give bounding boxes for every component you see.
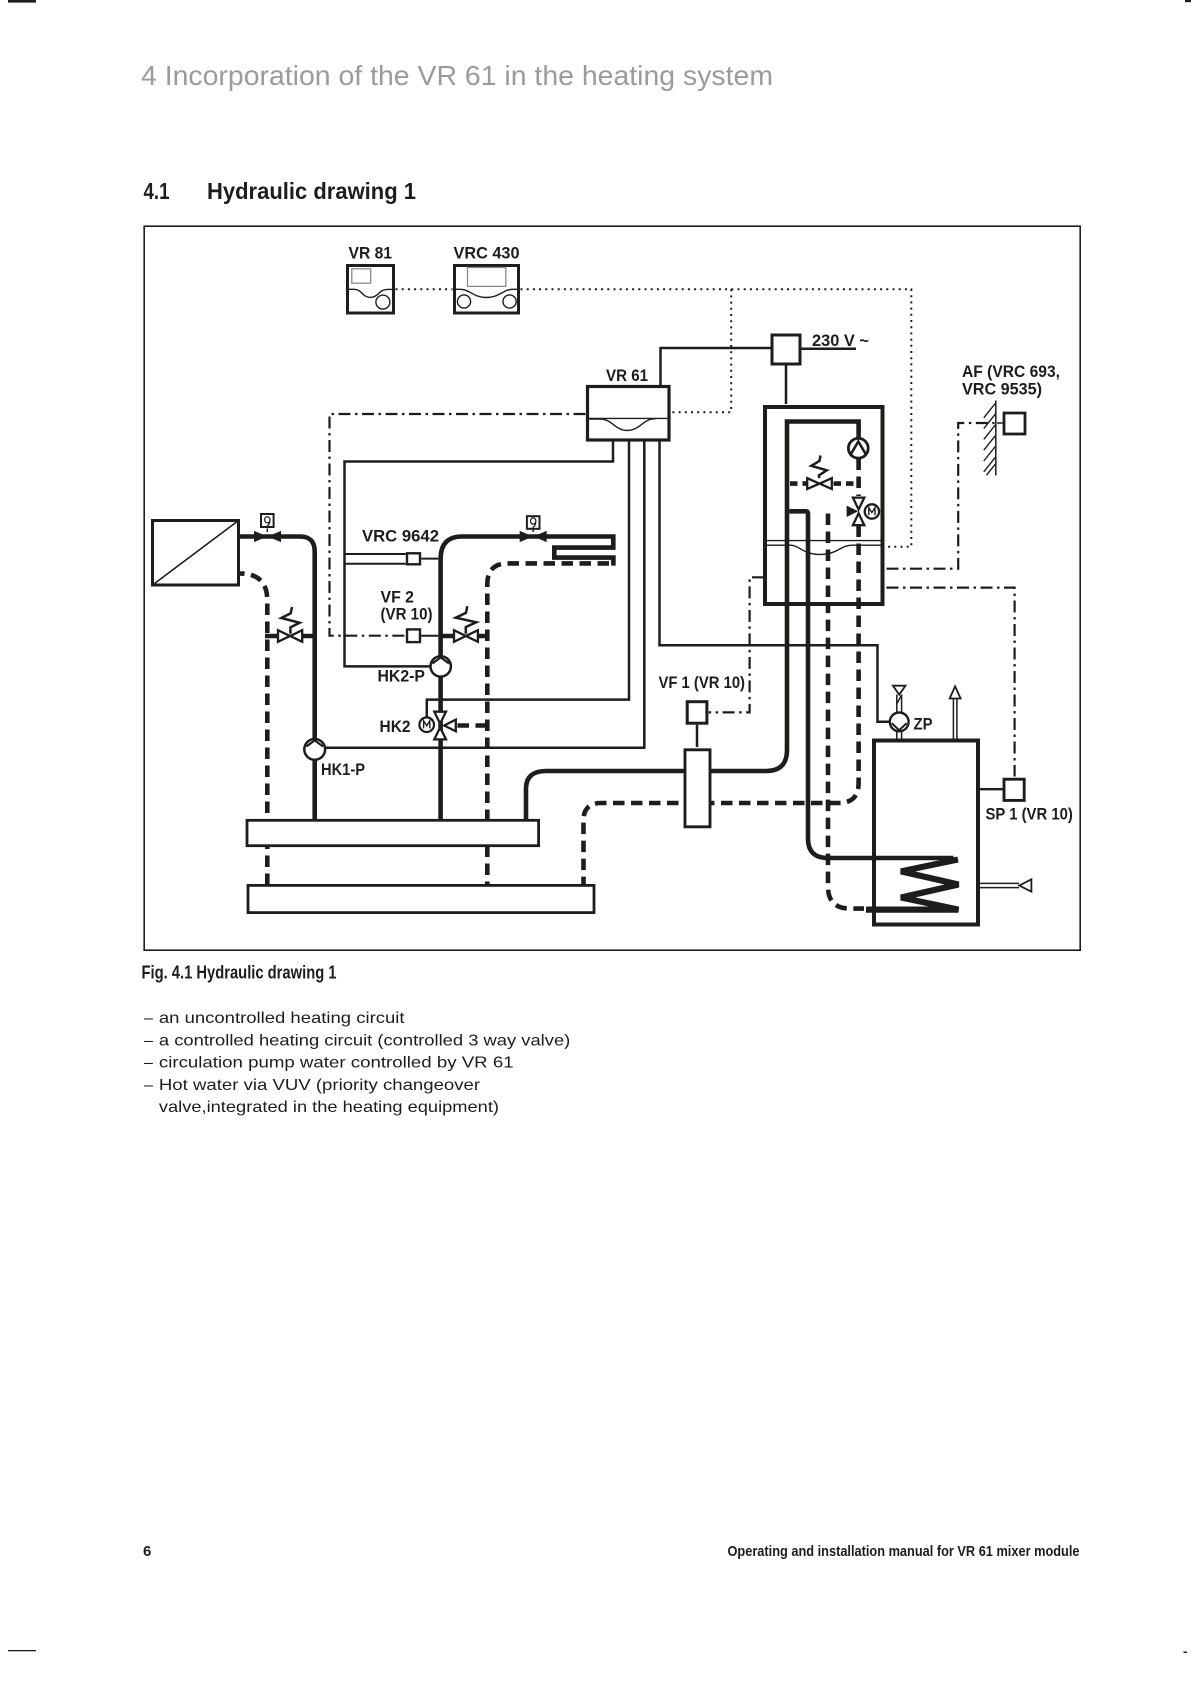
svg-text:VR 61: VR 61 bbox=[606, 367, 648, 385]
dash-dot wire VR61 to VF2 bbox=[330, 414, 586, 636]
dashed heating return pipe to lower manifold bbox=[584, 526, 859, 886]
DHW outlet arrow bbox=[950, 686, 961, 740]
crop mark top-right bbox=[1185, 0, 1191, 2]
sensor VF1 bbox=[659, 674, 746, 747]
AF outdoor sensor (VRC 693 / VRC 9535) bbox=[962, 363, 1060, 399]
svg-text:(VR 10): (VR 10) bbox=[381, 606, 433, 624]
svg-text:an uncontrolled heating circui: an uncontrolled heating circuit bbox=[159, 1010, 405, 1027]
dashed DHW return pipe tank coil to 3-way valve bbox=[828, 511, 864, 908]
dash-dot wire SP1 to boiler bbox=[887, 588, 1015, 777]
wire 230V box to boiler bbox=[785, 366, 788, 405]
eBUS dotted wire VR81 to VRC430 bbox=[396, 288, 453, 290]
boiler DHW flow pipe to tank coil bbox=[789, 511, 953, 858]
wire VR61 to HK1-P pump bbox=[325, 442, 644, 748]
remote control VR 81 bbox=[348, 245, 394, 314]
svg-text:–: – bbox=[144, 1055, 153, 1072]
svg-text:AF (VRC 693,: AF (VRC 693, bbox=[962, 363, 1060, 381]
wire VR61 to HK2 mixing valve bbox=[427, 442, 629, 718]
svg-text:SP 1 (VR 10): SP 1 (VR 10) bbox=[986, 806, 1073, 824]
crop mark bottom-left bbox=[8, 1650, 36, 1651]
boiler overflow valve bbox=[790, 456, 858, 490]
HK2 flow pipe with radiator coil bbox=[441, 537, 614, 822]
svg-text:VF 1 (VR 10): VF 1 (VR 10) bbox=[659, 674, 746, 692]
eBUS dotted wire branch to VR61 bbox=[671, 289, 731, 412]
diagram frame bbox=[144, 226, 1080, 950]
svg-text:Operating and installation man: Operating and installation manual for VR… bbox=[728, 1543, 1080, 1560]
svg-text:VF 2: VF 2 bbox=[381, 589, 415, 607]
boiler water line bbox=[765, 541, 885, 555]
mixing valve HK2 with motor bbox=[380, 712, 456, 740]
tank (DHW cylinder) bbox=[874, 741, 978, 925]
mixer module VR 61 bbox=[588, 367, 670, 440]
svg-text:circulation pump water control: circulation pump water controlled by VR … bbox=[159, 1055, 514, 1072]
svg-text:4 Incorporation of the VR 61 i: 4 Incorporation of the VR 61 in the heat… bbox=[141, 60, 773, 91]
controller VRC 430 bbox=[454, 245, 520, 314]
HK1 dashed return pipe bbox=[240, 574, 267, 887]
svg-text:–: – bbox=[144, 1032, 153, 1049]
sensor VRC 9642 with wires bbox=[345, 528, 440, 565]
dashed stub mixing valve to HK2 return bbox=[458, 723, 488, 728]
svg-text:VRC 9642: VRC 9642 bbox=[362, 528, 439, 546]
lower manifold bbox=[248, 885, 594, 912]
svg-text:230 V ~: 230 V ~ bbox=[812, 332, 869, 350]
svg-text:Hydraulic drawing 1: Hydraulic drawing 1 bbox=[207, 178, 416, 204]
svg-text:valve,integrated in the heatin: valve,integrated in the heating equipmen… bbox=[159, 1099, 499, 1116]
AF sensor box bbox=[997, 413, 1025, 434]
boiler internal flow loop bbox=[785, 419, 859, 604]
svg-text:ZP: ZP bbox=[914, 716, 933, 734]
svg-text:6: 6 bbox=[143, 1543, 151, 1560]
HK2 dashed return pipe bbox=[487, 563, 609, 886]
footer bbox=[143, 1543, 1080, 1560]
VF1 sensor well bbox=[685, 750, 710, 827]
cold water inlet arrow bbox=[978, 879, 1031, 891]
svg-text:Hot water via VUV (priority ch: Hot water via VUV (priority changeover bbox=[159, 1077, 481, 1094]
dashed stub pump to 3-way valve bbox=[856, 459, 861, 497]
ZP pipe and vent funnel bbox=[893, 686, 906, 741]
svg-text:HK2: HK2 bbox=[380, 718, 411, 736]
thermometer valve HK2 bbox=[520, 516, 547, 542]
svg-text:VR 81: VR 81 bbox=[349, 245, 393, 263]
bullet list bbox=[144, 1010, 570, 1116]
svg-text:HK1-P: HK1-P bbox=[321, 761, 365, 779]
HK2 bypass overflow valve bbox=[439, 606, 489, 642]
tank heating coil bbox=[866, 858, 959, 910]
boiler internal corner pipe bbox=[789, 511, 808, 604]
boiler flow pipe to upper manifold bbox=[526, 422, 859, 822]
heat source bbox=[153, 521, 239, 586]
pump HK2-P bbox=[378, 656, 451, 685]
boiler internal dashed pipes bbox=[828, 514, 859, 605]
wire VR61 to ZP pump bbox=[660, 442, 890, 722]
HK1 bypass overflow valve bbox=[265, 607, 317, 642]
svg-text:HK2-P: HK2-P bbox=[378, 668, 426, 686]
pump HK1-P bbox=[304, 739, 365, 779]
boiler pump bbox=[848, 438, 868, 458]
svg-text:4.1: 4.1 bbox=[144, 178, 170, 204]
svg-text:VRC 430: VRC 430 bbox=[454, 245, 520, 263]
boiler 3-way valve (VUV) with motor bbox=[847, 498, 880, 526]
HK1 flow pipe bbox=[240, 537, 315, 822]
svg-text:–: – bbox=[144, 1010, 153, 1027]
section heading 4.1 bbox=[144, 178, 417, 204]
crop mark top-left bbox=[8, 0, 36, 3]
svg-text:–: – bbox=[144, 1077, 153, 1094]
230V supply box bbox=[772, 332, 869, 364]
eBUS dotted wire VRC430 to boiler bbox=[521, 289, 912, 547]
upper manifold bbox=[247, 820, 539, 845]
svg-text:VRC 9535): VRC 9535) bbox=[962, 381, 1042, 399]
dash-dot wire VF1 to boiler bbox=[709, 577, 764, 712]
sensor VF2 bbox=[381, 589, 439, 643]
circulation pump ZP bbox=[890, 713, 933, 734]
boiler (heating appliance) bbox=[765, 407, 883, 604]
svg-text:Fig. 4.1 Hydraulic drawing 1: Fig. 4.1 Hydraulic drawing 1 bbox=[142, 963, 337, 983]
wire VR61 to HK2-P pump bbox=[345, 442, 614, 667]
crop mark bottom-right bbox=[1184, 1652, 1188, 1654]
AF wall with hatching bbox=[984, 401, 996, 476]
sensor SP1 bbox=[978, 779, 1073, 824]
thermometer valve HK1 bbox=[254, 514, 281, 542]
svg-text:a controlled heating circuit (: a controlled heating circuit (controlled… bbox=[159, 1032, 570, 1049]
wire VR61 to 230V box bbox=[661, 348, 771, 385]
dash-dot wire AF sensor to boiler bbox=[887, 423, 995, 569]
